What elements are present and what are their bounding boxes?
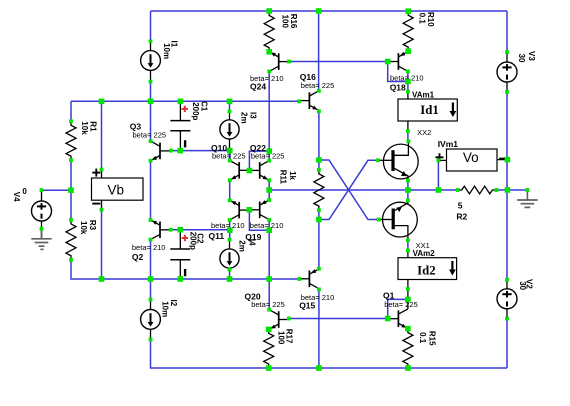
svg-text:VAm2: VAm2 (413, 249, 436, 258)
svg-text:V4: V4 (12, 192, 21, 202)
svg-text:0.1: 0.1 (418, 332, 427, 344)
svg-text:R1: R1 (89, 121, 98, 132)
svg-text:0.1: 0.1 (418, 13, 427, 25)
svg-text:2m: 2m (240, 112, 249, 124)
svg-text:VAm1: VAm1 (412, 90, 435, 99)
svg-text:10k: 10k (80, 121, 89, 135)
svg-text:I4: I4 (248, 239, 257, 246)
svg-text:Q11: Q11 (209, 231, 225, 241)
svg-text:beta= 225: beta= 225 (251, 152, 285, 161)
svg-text:beta= 210: beta= 210 (390, 73, 424, 82)
svg-text:10m: 10m (160, 301, 169, 317)
svg-text:beta= 225: beta= 225 (301, 81, 335, 90)
svg-text:R2: R2 (456, 212, 467, 222)
svg-text:10m: 10m (162, 43, 171, 59)
svg-text:Q18: Q18 (390, 82, 406, 92)
svg-text:Vb: Vb (108, 182, 125, 197)
svg-text:2m: 2m (237, 240, 246, 252)
svg-text:I3: I3 (249, 112, 258, 119)
svg-text:10k: 10k (79, 221, 88, 235)
svg-text:beta= 225: beta= 225 (384, 300, 418, 309)
svg-text:200p: 200p (189, 232, 198, 250)
svg-text:beta= 225: beta= 225 (251, 300, 285, 309)
svg-text:R15: R15 (428, 331, 437, 346)
svg-text:200p: 200p (191, 102, 200, 120)
svg-text:V3: V3 (527, 51, 536, 61)
svg-text:30: 30 (518, 281, 527, 290)
svg-text:beta= 210: beta= 210 (250, 221, 284, 230)
svg-text:0: 0 (22, 187, 27, 196)
svg-text:I2: I2 (169, 300, 178, 307)
svg-text:1k: 1k (288, 171, 297, 180)
svg-text:beta= 225: beta= 225 (212, 152, 246, 161)
svg-text:5: 5 (458, 201, 463, 211)
svg-text:Q24: Q24 (250, 81, 266, 91)
svg-text:Vo: Vo (463, 150, 479, 165)
svg-text:Id2: Id2 (417, 264, 436, 278)
svg-text:XX2: XX2 (417, 128, 431, 137)
svg-text:Q15: Q15 (299, 301, 315, 311)
svg-text:R3: R3 (88, 220, 97, 231)
svg-text:beta= 210: beta= 210 (132, 243, 166, 252)
svg-text:IVm1: IVm1 (438, 139, 459, 149)
svg-text:100: 100 (277, 331, 286, 345)
svg-text:beta= 210: beta= 210 (211, 221, 245, 230)
svg-text:R11: R11 (279, 170, 288, 185)
svg-text:100: 100 (281, 15, 290, 29)
svg-text:Q2: Q2 (132, 252, 144, 262)
svg-text:Id1: Id1 (420, 103, 439, 117)
svg-text:beta= 225: beta= 225 (133, 130, 167, 139)
svg-text:30: 30 (517, 54, 526, 63)
svg-text:XX1: XX1 (416, 241, 430, 250)
